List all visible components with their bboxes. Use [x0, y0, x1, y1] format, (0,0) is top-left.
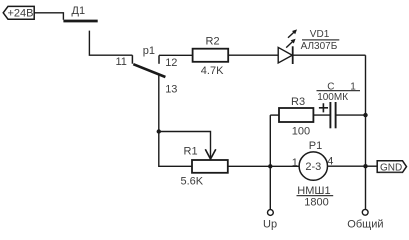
svg-text:2-3: 2-3: [305, 161, 321, 173]
svg-text:100: 100: [292, 126, 310, 138]
GND tag: [377, 161, 406, 173]
wire R1 right to junction: [228, 165, 270, 167]
P1 type underline: [297, 195, 334, 197]
svg-text:R2: R2: [206, 36, 220, 48]
wire R3 to C1 left plate: [313, 114, 329, 116]
resistor R3: [279, 108, 313, 122]
junction node (13 column / R1 branch): [157, 129, 161, 133]
wire R2 to LED VD1: [228, 54, 278, 56]
wire VD1 to right column: [293, 54, 366, 56]
power tag +24V: [3, 6, 34, 19]
LED VD1 triangle: [278, 47, 292, 63]
C1 polarity plus: [319, 103, 328, 112]
node 13 wire down to junction: [158, 75, 160, 132]
wire junction to coil P1: [270, 165, 299, 167]
wire from +24V tag to D1 contact: [34, 13, 63, 20]
svg-text:Д1: Д1: [72, 5, 86, 17]
junction node (GND row / right column): [363, 164, 367, 168]
svg-text:13: 13: [165, 84, 177, 96]
svg-text:5.6K: 5.6K: [181, 176, 204, 188]
svg-text:P1: P1: [309, 140, 322, 152]
LED VD1 cathode bar: [292, 46, 294, 64]
svg-text:11: 11: [116, 56, 127, 68]
capacitor C1 left plate: [329, 102, 331, 128]
capacitor C1 right plate: [335, 102, 337, 128]
svg-text:р1: р1: [143, 45, 155, 57]
svg-text:4.7K: 4.7K: [201, 65, 224, 77]
resistor R1 (potentiometer): [192, 160, 228, 173]
wire C1 right plate to right column: [337, 114, 366, 116]
svg-text:1: 1: [292, 157, 298, 169]
contact p1 terminal 12 tick: [158, 55, 160, 63]
wiper arrowhead into R1: [205, 149, 216, 159]
C1 label underline: [317, 90, 361, 92]
svg-text:Uр: Uр: [263, 219, 277, 231]
resistor R2: [193, 49, 229, 62]
svg-text:12: 12: [165, 57, 177, 69]
wire junction to R1 wiper arrow: [159, 132, 211, 158]
svg-text:VD1: VD1: [310, 29, 330, 40]
contact p1 terminal 11 tick: [131, 55, 133, 64]
mid column wire down to Up terminal: [269, 115, 271, 210]
terminal Up: [268, 210, 274, 216]
LED light arrow upper: [288, 31, 296, 38]
relay coil P1: [299, 152, 327, 180]
svg-text:R1: R1: [184, 146, 198, 158]
junction node (C1 / right column): [363, 113, 367, 117]
VD1 label fraction bar: [302, 39, 339, 41]
LED light arrow lower: [286, 40, 294, 47]
wire R3 left to mid column: [270, 114, 279, 116]
contact p1 blade (11 to 13): [133, 64, 165, 77]
wire junction to GND tag: [366, 165, 378, 167]
wire terminal 12 to R2: [159, 54, 193, 56]
svg-text:GND: GND: [380, 163, 402, 174]
svg-text:R3: R3: [291, 96, 305, 108]
junction node (R1 row / Up column): [268, 164, 272, 168]
svg-text:+24В: +24В: [8, 8, 34, 20]
svg-text:Общий: Общий: [347, 219, 383, 231]
svg-text:АЛ307Б: АЛ307Б: [301, 41, 338, 52]
wire P1 to GND junction: [328, 165, 366, 167]
right column wire: [365, 55, 367, 209]
contact D1 (thick bar): [63, 20, 97, 23]
wire junction down to R1 left terminal: [159, 132, 192, 167]
svg-text:1800: 1800: [304, 196, 328, 208]
wire from D1 gap down to contact p1 terminal 11: [89, 31, 132, 56]
terminal Obschiy: [362, 209, 368, 215]
svg-text:100МК: 100МК: [317, 92, 348, 103]
